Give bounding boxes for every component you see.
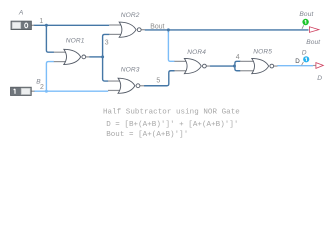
node A junction [45, 24, 48, 27]
svg-text:NOR1: NOR1 [66, 38, 85, 45]
NOR gate NOR2 [109, 22, 145, 37]
output Bout value bubble [302, 19, 308, 25]
svg-text:NOR4: NOR4 [187, 49, 206, 56]
output Bout terminal triangle [309, 27, 319, 33]
node 4 junction [233, 65, 236, 68]
wire net A horizontal [34, 24, 110, 26]
svg-text:Bout: Bout [306, 39, 321, 46]
wire net B horizontal [34, 90, 108, 92]
svg-text:3: 3 [105, 40, 109, 47]
output D pin stub [313, 65, 316, 67]
svg-text:2: 2 [40, 84, 44, 91]
NOR gate NOR5 [240, 58, 278, 73]
svg-text:Bout: Bout [299, 11, 314, 18]
NOR gate NOR1 [54, 49, 90, 64]
wire net D from NOR5 to output [277, 65, 313, 67]
wire net 3 from NOR1 output [89, 56, 102, 58]
wire Bout branch to NOR4 (light) [168, 32, 174, 62]
wire net Bout vertical cap [167, 30, 169, 33]
svg-text:NOR3: NOR3 [121, 67, 140, 74]
wire net 3 up to NOR2 [103, 34, 110, 57]
output D tick [302, 62, 304, 65]
wire net 4 fork upper into NOR5 [235, 61, 241, 67]
svg-text:D = [B+(A+B)']' + [A+(A+B)']': D = [B+(A+B)']' + [A+(A+B)']' [106, 121, 238, 129]
svg-text:Bout: Bout [150, 24, 164, 31]
input switch A [11, 21, 34, 30]
input switch B [11, 87, 35, 95]
output Bout tick [302, 25, 304, 29]
wire net 3 down to NOR3 [103, 57, 109, 81]
wire net A vertical to NOR1 [46, 25, 54, 52]
svg-text:4: 4 [236, 54, 240, 61]
svg-text:D: D [302, 50, 307, 57]
svg-text:NOR2: NOR2 [121, 12, 140, 19]
wire net Bout horizontal [145, 29, 309, 31]
svg-text:Bout = [A+(A+B)']': Bout = [A+(A+B)']' [106, 131, 188, 139]
svg-text:1: 1 [39, 18, 43, 25]
svg-text:D: D [295, 58, 300, 65]
svg-text:NOR5: NOR5 [253, 49, 272, 56]
output D terminal triangle [316, 63, 323, 69]
wire net 4 from NOR4 output [210, 65, 235, 67]
node B junction [45, 90, 48, 93]
svg-text:A: A [18, 10, 24, 17]
svg-text:D: D [317, 75, 322, 82]
svg-text:5: 5 [156, 78, 160, 85]
node Bout junction [167, 28, 170, 31]
NOR gate NOR4 [174, 58, 210, 73]
NOR gate NOR3 [108, 78, 144, 93]
wire net B vertical to NOR1 [46, 62, 54, 92]
wire net 4 fork lower into NOR5 [235, 65, 241, 71]
node 3 junction [101, 55, 104, 58]
output D value bubble [303, 56, 309, 62]
wire net 5 from NOR3 to NOR4 [144, 71, 175, 86]
svg-text:Half Subtractor using NOR Gate: Half Subtractor using NOR Gate [103, 109, 240, 117]
